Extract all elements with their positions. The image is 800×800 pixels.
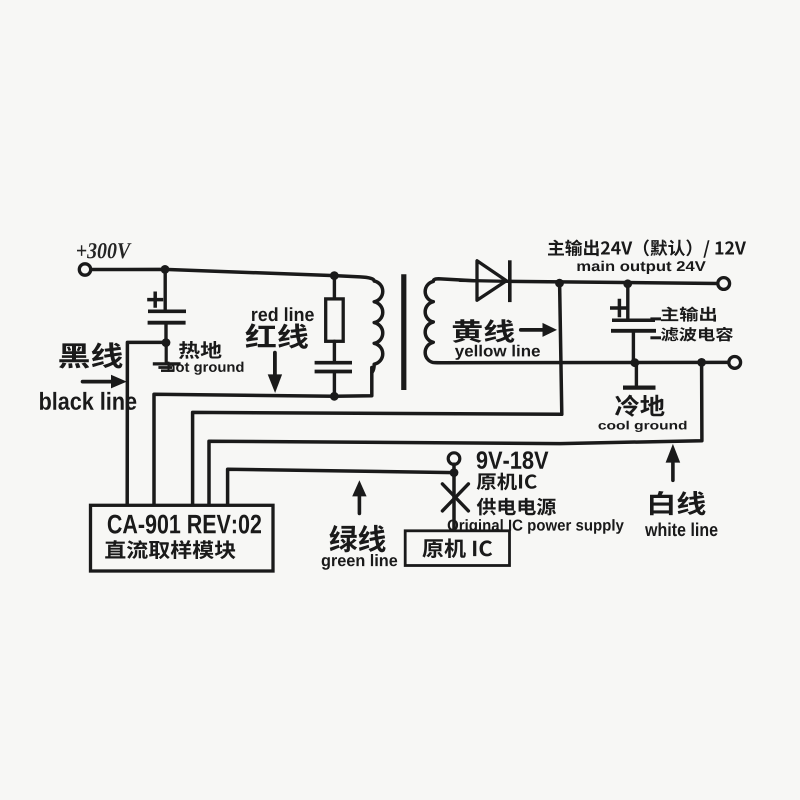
terminal 9V-18V	[448, 453, 460, 465]
module U1 CA-901 box	[91, 505, 274, 571]
transformer T1 secondary winding	[425, 279, 474, 363]
node D junction R1/C2 top / primary	[330, 271, 339, 280]
label black line	[40, 392, 136, 410]
terminal aux output	[729, 357, 741, 369]
terminal +300V input	[79, 264, 90, 275]
node E junction 24V/yellow	[555, 279, 564, 288]
wire yellow line net to rail B module pin 3	[193, 283, 562, 505]
diode D1	[460, 260, 511, 302]
node I junction rail D / IC feed	[450, 468, 459, 477]
label green line	[322, 554, 398, 570]
label tick 滤波电容	[650, 336, 661, 339]
ic U2 original IC box	[405, 531, 509, 566]
label cool ground	[599, 421, 687, 432]
label 原机IC	[477, 473, 537, 491]
label 白线	[650, 491, 706, 515]
label yellow line	[455, 345, 540, 360]
ground hot ground symbol	[153, 343, 181, 371]
label white line	[645, 523, 718, 537]
wire rail D 9V-18V net module pin 5	[228, 469, 454, 505]
wire white line net to rail C module pin 4	[209, 362, 702, 505]
capacitor C1 input bulk cap	[147, 269, 186, 340]
ground cool ground symbol	[623, 363, 656, 388]
wire IC supply drop	[452, 464, 456, 530]
label 滤波电容	[661, 327, 733, 342]
label 直流取样模块	[105, 540, 235, 559]
label +300V	[77, 243, 132, 259]
arrow white line pointer	[666, 444, 681, 480]
wire +300V top rail	[91, 269, 334, 275]
transformer T1 primary winding	[334, 276, 382, 373]
capacitor C2 snubber cap	[315, 363, 352, 397]
label 红线	[246, 323, 309, 348]
node H junction mid/white	[697, 358, 706, 367]
node G junction mid/C3	[630, 358, 639, 367]
wire aux output mid rail	[441, 361, 729, 365]
wire rail A (hot ground bus) module pin 2	[154, 368, 372, 506]
label 9V-18V	[477, 451, 549, 469]
label Original IC power supply	[448, 519, 624, 534]
terminal main output +	[718, 278, 730, 290]
label red line	[252, 307, 314, 321]
label 绿线	[329, 525, 385, 552]
node A junction +300V/C1	[161, 265, 170, 274]
wire black line net to module pin 1	[127, 342, 166, 505]
label 原机 IC	[422, 538, 492, 558]
transformer T1 core	[401, 274, 406, 390]
label 主输出	[661, 307, 716, 322]
label tick 主输出	[650, 317, 661, 320]
arrow red line pointer	[268, 353, 282, 393]
arrow yellow line pointer	[521, 323, 557, 337]
resistor R1 snubber	[326, 276, 344, 361]
capacitor C3 main output filter cap	[610, 284, 656, 362]
node B junction C1-/hot-ground	[162, 338, 171, 347]
label hot ground	[168, 362, 244, 375]
arrow black line pointer	[83, 375, 127, 389]
arrow green line pointer	[352, 480, 366, 513]
label 黄线	[453, 319, 515, 343]
node F junction 24V/C3	[623, 279, 632, 288]
label main output 24V	[577, 261, 705, 274]
label 主输出24V（默认）/ 12V	[548, 239, 746, 257]
node C junction rail A / C2	[330, 392, 339, 401]
junction X cut mark	[442, 484, 468, 511]
label 黑线	[59, 342, 123, 368]
label CA-901 REV:02	[108, 515, 261, 534]
wire 24V output rail	[511, 281, 718, 283]
label 供电电源	[477, 498, 556, 516]
label 冷地	[615, 395, 665, 417]
label 热地	[179, 341, 222, 359]
